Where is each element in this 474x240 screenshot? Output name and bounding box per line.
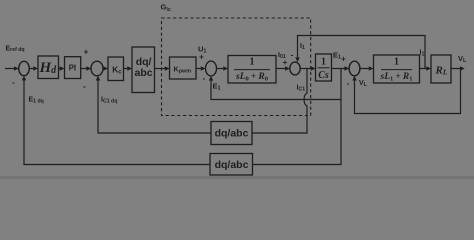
- svg-text:+: +: [84, 48, 89, 57]
- svg-text:dq/abc: dq/abc: [215, 128, 249, 140]
- svg-text:sL1 + R1: sL1 + R1: [380, 71, 413, 83]
- svg-text:I1: I1: [300, 43, 305, 51]
- svg-text:1: 1: [321, 57, 326, 68]
- svg-text:+: +: [341, 55, 346, 64]
- svg-text:Eref dq: Eref dq: [6, 45, 25, 53]
- svg-text:E1 dq: E1 dq: [29, 97, 44, 105]
- svg-text:I1: I1: [420, 50, 425, 58]
- svg-text:Cs: Cs: [318, 70, 329, 81]
- svg-text:PI: PI: [69, 63, 76, 72]
- svg-text:VL: VL: [359, 80, 368, 88]
- svg-text:IC1 dq: IC1 dq: [101, 97, 117, 105]
- svg-text:-: -: [203, 74, 206, 83]
- svg-text:1: 1: [394, 57, 399, 68]
- svg-text:-: -: [291, 50, 294, 59]
- svg-text:1: 1: [250, 57, 255, 68]
- svg-text:-: -: [83, 82, 86, 91]
- svg-text:I01: I01: [278, 52, 286, 60]
- svg-text:-: -: [347, 79, 350, 88]
- svg-text:dq/abc: dq/abc: [215, 159, 249, 171]
- svg-text:-: -: [12, 78, 15, 87]
- svg-text:IC1: IC1: [297, 85, 306, 93]
- svg-text:sL0 + R0: sL0 + R0: [235, 71, 268, 83]
- svg-text:abc: abc: [135, 67, 153, 79]
